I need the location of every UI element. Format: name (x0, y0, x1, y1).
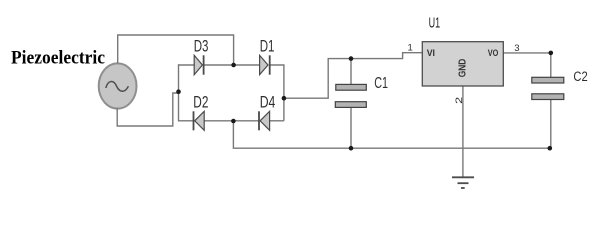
junction node C2 bottom (548, 146, 553, 151)
capacitor C1 (335, 84, 366, 107)
AC source (piezoelectric element) (99, 63, 137, 108)
svg-text:C2: C2 (573, 69, 587, 85)
junction node B (D2-D4 / bottom rail) (231, 119, 236, 124)
wire source bottom (117, 93, 178, 126)
wire C2 top riser (550, 53, 552, 77)
wire source top loop (118, 35, 234, 64)
svg-text:GND: GND (457, 59, 468, 78)
voltage regulator U1 (422, 42, 503, 86)
wire bottom row D2 cathode (178, 120, 194, 122)
svg-text:D3: D3 (194, 37, 209, 56)
wire U1 pin 2 to ground (462, 86, 464, 177)
wire U1 pin 3 to C2 (503, 52, 551, 54)
wire bottom row D2 anode to D4 cathode (204, 120, 259, 122)
svg-text:D1: D1 (260, 37, 275, 56)
svg-text:1: 1 (408, 42, 413, 53)
diode D1 (260, 55, 270, 74)
junction node R (bridge output) (282, 96, 287, 101)
junction node C1 bottom (349, 146, 354, 151)
svg-text:VO: VO (488, 47, 499, 58)
svg-text:Piezoelectric: Piezoelectric (11, 48, 105, 69)
svg-text:U1: U1 (429, 15, 441, 31)
wire bridge left vertical (178, 64, 180, 121)
junction node T (source top / D3-D1) (231, 63, 236, 68)
diode D4 (259, 111, 270, 130)
wire C2 bottom drop (550, 100, 552, 149)
capacitor C2 (532, 77, 564, 99)
diode D2 (194, 111, 205, 130)
svg-text:D2: D2 (193, 92, 208, 111)
wire bridge output to U1 pin 1 (284, 53, 422, 98)
svg-text:2: 2 (454, 97, 465, 104)
wire C1 bottom drop (350, 107, 352, 148)
svg-text:VI: VI (427, 47, 435, 58)
wire top row D1 cathode to right vertical (270, 65, 284, 121)
wire top row D3 anode (178, 64, 194, 66)
junction node C2 top (549, 51, 554, 56)
svg-text:C1: C1 (374, 75, 388, 92)
svg-text:3: 3 (514, 43, 519, 54)
diode D3 (194, 55, 203, 74)
ground (452, 177, 474, 188)
wire top row D3 cathode to D1 anode (204, 64, 260, 66)
svg-text:D4: D4 (260, 92, 276, 111)
wire bottom rail (233, 121, 549, 148)
wire bottom row D4 anode to right vertical (270, 120, 284, 122)
junction node C1 top (349, 56, 354, 61)
wire C1 top riser (350, 59, 352, 85)
junction node L (source bottom / D3-D2 left) (176, 89, 181, 94)
